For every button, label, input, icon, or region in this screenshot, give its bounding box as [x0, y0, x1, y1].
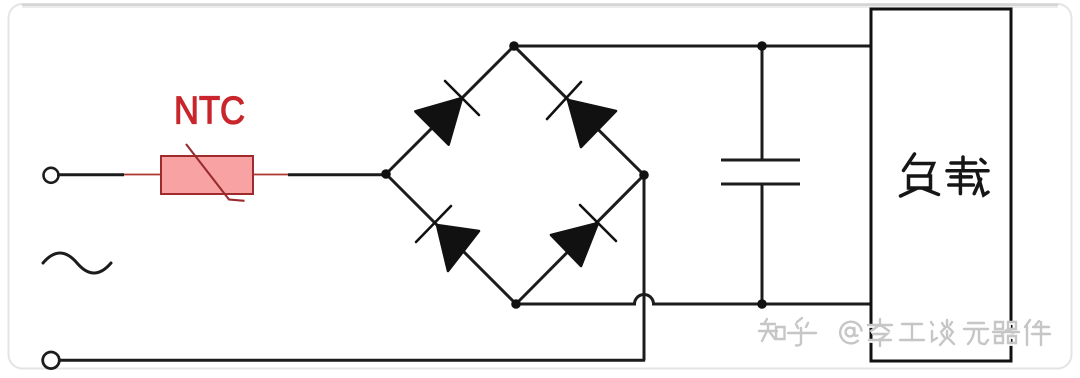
wire (bridge edge left-bottom): [386, 174, 516, 304]
wire (DC+ top rail): [514, 45, 871, 48]
node left: [381, 169, 391, 179]
label 负载 (load) drawn strokes: [901, 154, 989, 196]
capacitor C1 plates: [721, 160, 800, 184]
node cap top junction: [757, 41, 767, 51]
node cap bottom junction: [757, 299, 767, 309]
node top (+): [509, 41, 519, 51]
NTC diagonal mark: [186, 144, 245, 201]
diode D3 (left-bottom arm): [416, 206, 479, 271]
wire (bridge edge left-top): [386, 46, 514, 174]
负 char: [901, 154, 939, 196]
wire (DC- rail with hop over AC drop): [516, 295, 871, 305]
wire (capacitor top lead): [761, 46, 764, 160]
diode D4 (bottom-right arm): [551, 205, 616, 266]
载 char: [947, 157, 988, 195]
wire (capacitor bottom lead): [761, 184, 764, 304]
wire (red lead right): [253, 174, 289, 176]
node right: [639, 170, 649, 180]
diode D2 (top-right arm): [547, 82, 616, 147]
wire (bridge edge top-right): [514, 46, 644, 175]
resistor NTC (thermistor body): [161, 156, 253, 194]
load box: [871, 9, 1011, 361]
AC source symbol: [43, 253, 111, 273]
wire: [57, 173, 124, 176]
wire (red lead left): [124, 174, 162, 176]
wire (bridge edge bottom-right): [516, 175, 644, 304]
svg-text:NTC: NTC: [174, 90, 245, 133]
wire (AC drop from bridge right vertex): [643, 175, 646, 361]
node bottom: [511, 299, 521, 309]
wire (bottom AC rail): [59, 359, 645, 362]
terminal J1 (AC input top): [44, 168, 59, 183]
diode D1 (left-top arm): [415, 81, 479, 145]
terminal J2 (AC input bottom): [43, 352, 60, 369]
wire: [288, 173, 386, 176]
